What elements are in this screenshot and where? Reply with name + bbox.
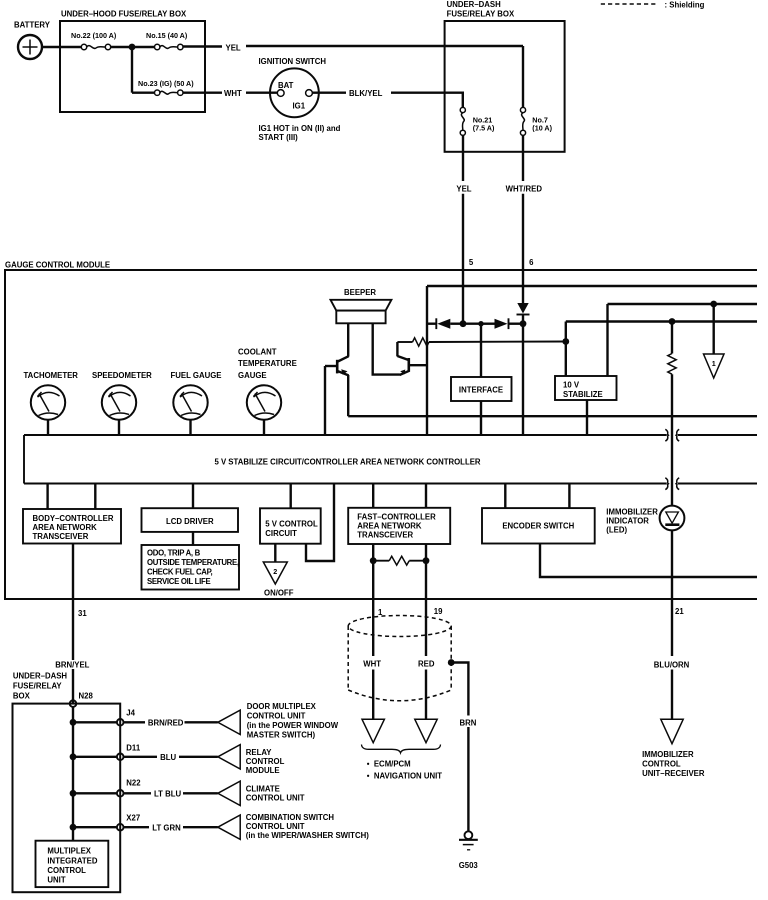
svg-text:RED: RED — [418, 659, 435, 668]
junction resistor to 10V wire — [562, 338, 569, 345]
connector arrow 1 — [704, 354, 725, 378]
svg-text:START (III): START (III) — [259, 133, 299, 142]
svg-text:SPEEDOMETER: SPEEDOMETER — [92, 371, 152, 380]
svg-text:CONTROL: CONTROL — [642, 759, 681, 768]
fuse No.15 (40 A) — [146, 31, 188, 50]
connector arrow immobilizer — [661, 719, 683, 743]
wire vertical x427 — [426, 286, 428, 435]
fuse No.22 (100 A) — [71, 31, 117, 50]
immobilizer indicator LED D4 — [606, 506, 684, 535]
wire YEL to diode junction — [462, 194, 464, 324]
wire fuse15 to YEL label — [183, 45, 222, 47]
junction y304 connector1 — [710, 301, 717, 308]
bus box 5V stabilize/CAN controller — [24, 435, 757, 484]
wire down to connector 1 — [713, 304, 715, 354]
wire bus to body transceiver pin b — [94, 484, 96, 510]
connector D11 — [117, 743, 141, 760]
svg-text:CHECK FUEL CAP,: CHECK FUEL CAP, — [147, 567, 213, 576]
wire Q2 collector up to resistor line — [396, 342, 398, 356]
wire encoder bottom right — [540, 544, 757, 578]
svg-text:CONTROL: CONTROL — [47, 866, 86, 875]
wire fuel gauge to bus — [189, 420, 191, 435]
ignition switch SW — [259, 57, 327, 117]
svg-text:LT GRN: LT GRN — [152, 823, 181, 832]
fuse No.21 (7.5 A) — [460, 107, 495, 135]
svg-text:BLU: BLU — [160, 753, 176, 762]
note IG1 HOT — [259, 124, 341, 142]
wire 10V left top — [565, 322, 567, 377]
svg-text:TRANSCEIVER: TRANSCEIVER — [357, 530, 413, 539]
svg-text:COOLANT: COOLANT — [238, 347, 277, 356]
wire tap to N22 — [73, 792, 117, 794]
svg-text:BODY–CONTROLLER: BODY–CONTROLLER — [33, 514, 114, 523]
wire J4 to BRN/RED label — [124, 721, 145, 723]
wire bus to fast transceiver pin a — [372, 484, 374, 508]
connector arrow relay control — [218, 745, 240, 769]
svg-text:GAUGE CONTROL MODULE: GAUGE CONTROL MODULE — [5, 260, 110, 269]
svg-text:X27: X27 — [126, 814, 140, 823]
svg-text:CONTROL UNIT: CONTROL UNIT — [247, 712, 306, 721]
svg-text:GAUGE: GAUGE — [238, 371, 267, 380]
svg-text:STABILIZE: STABILIZE — [563, 390, 603, 399]
wire node6 down to bus — [522, 315, 524, 436]
svg-text:LCD DRIVER: LCD DRIVER — [166, 517, 214, 526]
junction dot — [129, 44, 136, 51]
svg-text:5: 5 — [469, 258, 474, 267]
svg-text:31: 31 — [78, 609, 87, 618]
wire ignition to BLK/YEL label — [312, 91, 346, 93]
svg-text:CONTROL UNIT: CONTROL UNIT — [246, 793, 305, 802]
wire bus to fast transceiver pin b — [425, 484, 427, 508]
wire BLU/ORN to immobilizer arrow — [671, 670, 673, 720]
svg-text:CONTROL UNIT: CONTROL UNIT — [246, 822, 305, 831]
svg-text:ODO, TRIP A, B: ODO, TRIP A, B — [147, 549, 201, 558]
wire Q1 base down to bus — [324, 366, 326, 435]
ground G503 — [459, 831, 479, 870]
svg-text:UNDER–DASH: UNDER–DASH — [447, 0, 502, 9]
svg-text:SERVICE OIL LIFE: SERVICE OIL LIFE — [147, 577, 210, 586]
svg-text:BRN/YEL: BRN/YEL — [55, 661, 89, 670]
wire X27 to LT GRN label — [124, 826, 149, 828]
svg-text:J4: J4 — [126, 709, 135, 718]
under-dash fuse/relay box — [445, 0, 565, 152]
svg-text:IMMOBILIZER: IMMOBILIZER — [606, 507, 658, 516]
connector N22 — [117, 778, 141, 796]
label relay control module — [246, 748, 285, 775]
junction node 5 — [460, 320, 467, 327]
svg-text:: Shielding: : Shielding — [665, 1, 705, 10]
junction y321.5 resistor R2 — [669, 318, 676, 325]
svg-text:(10 A): (10 A) — [532, 124, 552, 133]
junction D11 tap — [70, 753, 77, 760]
wire shield to BRN — [451, 663, 468, 716]
junction interface node — [478, 321, 483, 326]
svg-text:UNIT: UNIT — [47, 876, 65, 885]
svg-text:IGNITION SWITCH: IGNITION SWITCH — [259, 57, 327, 66]
svg-text:BLK/YEL: BLK/YEL — [349, 89, 383, 98]
svg-text:YEL: YEL — [456, 184, 471, 193]
svg-text:ON/OFF: ON/OFF — [264, 588, 294, 597]
wire junction down — [131, 47, 133, 93]
junction J4 tap — [70, 719, 77, 726]
svg-text:No.15 (40 A): No.15 (40 A) — [146, 31, 188, 40]
wire horizontal y321.5 — [566, 320, 757, 322]
svg-text:10 V: 10 V — [563, 380, 580, 389]
wire 5V control to connector 2 — [274, 544, 276, 562]
svg-text:MODULE: MODULE — [246, 766, 280, 775]
fuse No.23 (IG) (50 A) — [138, 79, 194, 95]
wire WHT to ignition switch — [246, 91, 277, 93]
svg-text:TEMPERATURE: TEMPERATURE — [238, 359, 297, 368]
wire tap to J4 — [73, 721, 117, 723]
junction node 6 — [520, 320, 527, 327]
svg-text:• ECM/PCM: • ECM/PCM — [367, 760, 411, 769]
svg-text:BEEPER: BEEPER — [344, 288, 376, 297]
wire junction to fuse15 — [132, 46, 155, 48]
interface box U1 — [451, 377, 512, 401]
connector X27 — [117, 814, 140, 831]
svg-text:No.22 (100 A): No.22 (100 A) — [71, 31, 117, 40]
connector N28 — [70, 692, 94, 707]
svg-text:(7.5 A): (7.5 A) — [473, 124, 495, 133]
svg-text:D11: D11 — [126, 743, 141, 752]
svg-text:5 V STABILIZE CIRCUIT/CONTROLL: 5 V STABILIZE CIRCUIT/CONTROLLER AREA NE… — [214, 457, 480, 466]
under-hood fuse/relay box — [60, 10, 205, 113]
wire to diode D2 — [481, 323, 495, 325]
wire fuse22 to junction — [111, 46, 132, 48]
svg-text:INTEGRATED: INTEGRATED — [47, 856, 97, 865]
svg-text:2: 2 — [273, 567, 277, 576]
wire BLU to relay arrow — [179, 756, 218, 758]
resistor R2 — [668, 322, 676, 506]
connector arrow 2 — [263, 562, 287, 584]
connector arrow combination switch — [218, 815, 240, 839]
svg-text:BLU/ORN: BLU/ORN — [654, 661, 690, 670]
wire WHT/RED to diode D3 — [522, 194, 524, 303]
wire interface top — [480, 324, 482, 377]
connector arrow WHT down — [362, 719, 384, 742]
svg-text:FAST–CONTROLLER: FAST–CONTROLLER — [357, 512, 436, 521]
svg-text:WHT: WHT — [363, 659, 381, 668]
svg-text:MULTIPLEX: MULTIPLEX — [47, 847, 91, 856]
svg-text:LT BLU: LT BLU — [154, 790, 182, 799]
wire horizontal y286 — [427, 285, 757, 287]
svg-text:CIRCUIT: CIRCUIT — [265, 529, 297, 538]
wire BRN to ground — [467, 727, 469, 831]
wire RED to ECM arrow — [425, 670, 427, 720]
wire beeper right to Q2 emitter — [373, 323, 400, 374]
wire BRN/RED to door multiplex arrow — [185, 721, 218, 723]
wire tachometer to bus — [47, 420, 49, 435]
label combination switch control unit — [246, 813, 369, 840]
body-controller area network transceiver box — [23, 509, 121, 544]
fuel gauge — [171, 371, 222, 420]
wire node5 to interface node — [463, 323, 481, 325]
gauge control module box — [5, 260, 757, 599]
wire fuse No.7 down (WHT/RED) — [522, 135, 524, 181]
svg-text:ENCODER SWITCH: ENCODER SWITCH — [502, 521, 574, 530]
svg-text:OUTSIDE TEMPERATURE,: OUTSIDE TEMPERATURE, — [147, 558, 239, 567]
svg-text:WHT/RED: WHT/RED — [506, 184, 543, 193]
legend shielding — [601, 1, 705, 10]
diode D1 — [436, 318, 450, 329]
svg-text:BAT: BAT — [278, 81, 294, 90]
wire fast box pin 19 down — [425, 544, 427, 656]
svg-text:CONTROL: CONTROL — [246, 757, 285, 766]
svg-text:5 V CONTROL: 5 V CONTROL — [265, 519, 318, 528]
transistor Q1 — [325, 356, 349, 375]
wire coolant gauge to bus — [263, 420, 265, 435]
svg-text:N22: N22 — [126, 778, 141, 787]
svg-text:G503: G503 — [459, 861, 479, 870]
svg-text:21: 21 — [675, 607, 684, 616]
svg-text:N28: N28 — [79, 692, 94, 701]
tachometer gauge — [24, 371, 79, 420]
brace under arrows — [362, 745, 441, 753]
wire horizontal y304 — [608, 303, 758, 305]
wire horizontal y416 — [348, 415, 757, 417]
svg-text:BRN: BRN — [460, 718, 477, 727]
diode D2 — [495, 318, 509, 329]
junction R3 left — [370, 557, 377, 564]
LCD driver box — [142, 508, 239, 532]
wire fuse23 to WHT label — [183, 91, 222, 93]
svg-text:UNDER–HOOD FUSE/RELAY BOX: UNDER–HOOD FUSE/RELAY BOX — [61, 10, 187, 19]
wire bus to encoder pin b — [568, 484, 570, 509]
svg-text:IG1: IG1 — [293, 102, 306, 111]
svg-text:AREA NETWORK: AREA NETWORK — [357, 521, 422, 530]
5V control circuit box — [260, 508, 321, 543]
wire YEL down to fuse No.7 — [522, 46, 524, 107]
resistor R1 — [397, 338, 565, 346]
resistor R3 — [373, 556, 426, 565]
wire LT BLU to climate arrow — [183, 792, 218, 794]
wire fuse No.21 down (YEL) — [462, 135, 464, 181]
svg-text:19: 19 — [434, 607, 443, 616]
battery — [14, 21, 51, 60]
diode D3 vertical — [517, 303, 530, 315]
connector arrow RED down — [415, 719, 437, 742]
wire bus to body transceiver pin a — [46, 484, 48, 510]
svg-text:(LED): (LED) — [606, 525, 627, 534]
wire fast box pin 1 down — [372, 544, 374, 656]
bus bottom pass-through marks — [665, 478, 679, 490]
connector arrow climate — [218, 781, 240, 805]
junction X27 tap — [70, 824, 77, 831]
wire 10V bottom to bus — [586, 400, 588, 435]
wire D1 to node5 — [450, 323, 463, 325]
wire LCD driver to list box — [192, 532, 194, 545]
under-dash fuse/relay box lower — [13, 671, 121, 892]
wire bus to encoder pin a — [504, 484, 506, 509]
wire D2 to node 6 — [509, 323, 524, 325]
svg-text:DOOR MULTIPLEX: DOOR MULTIPLEX — [247, 702, 317, 711]
svg-text:TACHOMETER: TACHOMETER — [24, 371, 79, 380]
svg-text:• NAVIGATION UNIT: • NAVIGATION UNIT — [367, 772, 442, 781]
wire bus to LCD driver — [192, 484, 194, 509]
wire battery to under-hood box — [42, 46, 82, 48]
svg-text:AREA NETWORK: AREA NETWORK — [33, 523, 98, 532]
bus top pass-through marks — [665, 429, 679, 441]
svg-text:IG1 HOT in ON (II) and: IG1 HOT in ON (II) and — [259, 124, 341, 133]
wire N22 to LT BLU label — [124, 792, 151, 794]
wire tap to X27 — [73, 826, 117, 828]
wire LED down to pin 21 — [671, 530, 673, 656]
wire BLK/YEL to under-dash box — [391, 93, 463, 108]
svg-text:CLIMATE: CLIMATE — [246, 784, 280, 793]
wire pin31 down (BRN/YEL) — [72, 599, 74, 704]
LCD functions list box — [142, 545, 240, 590]
svg-text:BRN/RED: BRN/RED — [148, 718, 184, 727]
junction N22 tap — [70, 790, 77, 797]
svg-text:BOX: BOX — [13, 691, 31, 700]
svg-text:RELAY: RELAY — [246, 748, 273, 757]
label immobilizer control unit-receiver — [642, 750, 705, 778]
svg-text:FUEL GAUGE: FUEL GAUGE — [171, 371, 222, 380]
svg-text:TRANSCEIVER: TRANSCEIVER — [33, 532, 89, 541]
shield cylinder — [348, 616, 451, 701]
wire beeper left to Q1 collector — [347, 323, 349, 356]
svg-text:INTERFACE: INTERFACE — [459, 385, 503, 394]
10 V stabilize box U2 — [555, 376, 617, 400]
beeper — [331, 288, 392, 323]
svg-text:1: 1 — [712, 359, 716, 368]
svg-text:(in the POWER WINDOW: (in the POWER WINDOW — [247, 721, 339, 730]
transistor Q2 — [397, 356, 427, 375]
wire body box to pin 31 — [72, 544, 74, 600]
svg-text:COMBINATION SWITCH: COMBINATION SWITCH — [246, 813, 335, 822]
label ECM/PCM navigation — [367, 760, 442, 781]
wire Q1 emitter down — [347, 375, 349, 416]
wire 5V control loop to bus — [306, 484, 334, 562]
svg-text:IMMOBILIZER: IMMOBILIZER — [642, 750, 694, 759]
svg-text:MASTER SWITCH): MASTER SWITCH) — [247, 731, 316, 740]
svg-text:(in the WIPER/WASHER SWITCH): (in the WIPER/WASHER SWITCH) — [246, 831, 369, 840]
wire tap to D11 — [73, 756, 117, 758]
svg-text:No.23 (IG) (50 A): No.23 (IG) (50 A) — [138, 79, 194, 88]
wire YEL to under-dash box — [246, 45, 523, 47]
wire WHT to ECM arrow — [372, 670, 374, 720]
junction shield to ground — [448, 659, 455, 666]
svg-text:UNDER–DASH: UNDER–DASH — [13, 671, 68, 680]
wire LT GRN to combination arrow — [183, 826, 218, 828]
wire D11 to BLU label — [124, 756, 157, 758]
wire bus to 5V control circuit — [290, 484, 292, 509]
wire diode row left — [427, 323, 437, 325]
wire interface bottom to bus — [480, 401, 482, 435]
coolant temperature gauge — [238, 347, 297, 419]
svg-text:FUSE/RELAY BOX: FUSE/RELAY BOX — [447, 10, 515, 19]
fast-controller area network transceiver box — [348, 508, 450, 544]
svg-text:6: 6 — [529, 258, 534, 267]
wire speedometer to bus — [118, 420, 120, 435]
svg-text:INDICATOR: INDICATOR — [606, 516, 649, 525]
junction R3 right — [423, 557, 430, 564]
encoder switch box — [482, 508, 595, 543]
svg-text:UNIT–RECEIVER: UNIT–RECEIVER — [642, 769, 705, 778]
wire 10V right top — [606, 304, 608, 376]
wire to fuse23 — [132, 91, 155, 93]
label door multiplex control unit — [247, 702, 339, 740]
wire N28 down to multiplex unit — [72, 707, 74, 841]
fuse No.7 (10 A) — [520, 107, 552, 135]
multiplex integrated control unit box — [36, 841, 109, 887]
svg-text:YEL: YEL — [226, 44, 241, 53]
connector J4 — [117, 709, 136, 726]
svg-text:WHT: WHT — [224, 89, 242, 98]
svg-text:BATTERY: BATTERY — [14, 21, 51, 30]
connector arrow door multiplex — [218, 710, 240, 734]
speedometer gauge — [92, 371, 152, 420]
label climate control unit — [246, 784, 305, 802]
svg-text:FUSE/RELAY: FUSE/RELAY — [13, 681, 62, 690]
